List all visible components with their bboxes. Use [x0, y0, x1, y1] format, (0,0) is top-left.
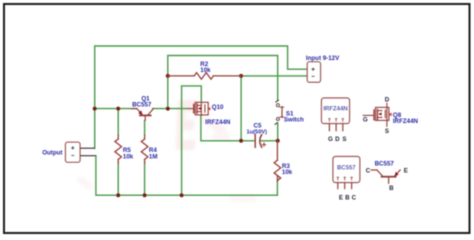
connector Input 9-12V: [307, 62, 320, 82]
wire: bottom rail from Output - column to R3 corner: [96, 156, 278, 196]
junction at switch/C5/R3 node: [276, 139, 280, 143]
resistor R4 1M: [141, 135, 148, 164]
junction at R2 right / Input - node: [239, 74, 243, 78]
junction at drain loop on rail: [180, 193, 184, 197]
svg-text:G: G: [328, 136, 333, 143]
wire: R2 right junction to Input -: [241, 75, 307, 77]
svg-text:IRFZ44N: IRFZ44N: [393, 118, 419, 125]
svg-text:BC557: BC557: [337, 166, 356, 172]
svg-text:C: C: [352, 194, 357, 201]
svg-text:S: S: [342, 136, 346, 143]
junction at R5 top: [116, 107, 120, 111]
transistor Q1 BC557: [132, 109, 154, 121]
wire: collector to gate rail segment: [153, 108, 189, 110]
wire: inner rail from collector node up and across to switch top: [168, 56, 278, 109]
wire: R4 bottom column: [144, 164, 146, 196]
wire: R5 top column: [117, 109, 119, 135]
svg-text:Output: Output: [42, 149, 62, 156]
wire: R3 bottom to rail corner: [276, 181, 278, 195]
junction at top of Output + column: [93, 107, 97, 111]
svg-text:BC557: BC557: [132, 102, 152, 109]
svg-text:1M: 1M: [149, 153, 158, 160]
MOSFET Q10 IRFZ44N: [189, 102, 209, 116]
svg-text:B: B: [389, 185, 394, 192]
wire: Q10 drain loop up-left-down to bottom rail: [182, 86, 202, 195]
package preview IRFZ44N TO-220: [322, 98, 350, 124]
svg-text:D: D: [335, 136, 340, 143]
junction at R5 bottom on rail: [116, 193, 120, 197]
svg-text:10k: 10k: [200, 67, 211, 74]
svg-text:Input 9-12V: Input 9-12V: [306, 55, 340, 62]
wire: R4 top column from Q1 base: [144, 121, 146, 136]
junction at R2 left node: [166, 74, 170, 78]
wire: outer top rail from node A down-left column to Input +: [95, 46, 308, 148]
svg-text:G: G: [363, 116, 368, 123]
svg-text:D: D: [385, 96, 390, 103]
svg-text:E: E: [339, 194, 343, 201]
svg-text:E: E: [404, 167, 408, 174]
connector Output: [66, 142, 81, 162]
resistor R3 10k: [274, 141, 281, 182]
wire: Output + lead: [80, 147, 95, 149]
MOSFET Q8 preview symbol: [363, 103, 389, 126]
package preview BC557 TO-92: [333, 157, 360, 183]
wire: Output - lead: [80, 155, 96, 157]
junction at collector/gate node: [166, 107, 170, 111]
svg-text:C5: C5: [254, 122, 262, 129]
junction at R4 bottom on rail: [143, 193, 147, 197]
svg-text:Q10: Q10: [212, 104, 224, 111]
transistor BC557 preview symbol: [371, 170, 400, 183]
resistor R5 10k: [115, 135, 122, 164]
capacitor C5 1u(50V): [255, 135, 265, 148]
wire: vertical from R2 right junction down to C5 node: [240, 76, 242, 141]
svg-text:10k: 10k: [282, 169, 293, 176]
wire: Q10 source down and right to C5 left plate: [201, 116, 255, 141]
wire: C5 right plate to switch bottom node: [261, 140, 278, 142]
svg-text:Switch: Switch: [284, 117, 304, 124]
svg-text:IRFZ44N: IRFZ44N: [323, 106, 347, 112]
svg-text:C: C: [366, 167, 371, 174]
junction at C5 left node: [239, 139, 243, 143]
svg-text:IRFZ44N: IRFZ44N: [205, 119, 231, 126]
wire: switch bottom to C5/R3 node: [277, 123, 279, 141]
resistor R2 10k: [168, 73, 241, 80]
switch S1: [277, 104, 280, 121]
wire: R5 bottom column: [117, 164, 119, 196]
svg-text:BC557: BC557: [375, 160, 395, 167]
svg-text:B: B: [345, 194, 350, 201]
svg-text:S: S: [385, 128, 389, 135]
svg-text:10k: 10k: [123, 153, 134, 160]
wire: emitter rail segment: [95, 108, 137, 110]
svg-text:1u(50V): 1u(50V): [247, 130, 268, 136]
